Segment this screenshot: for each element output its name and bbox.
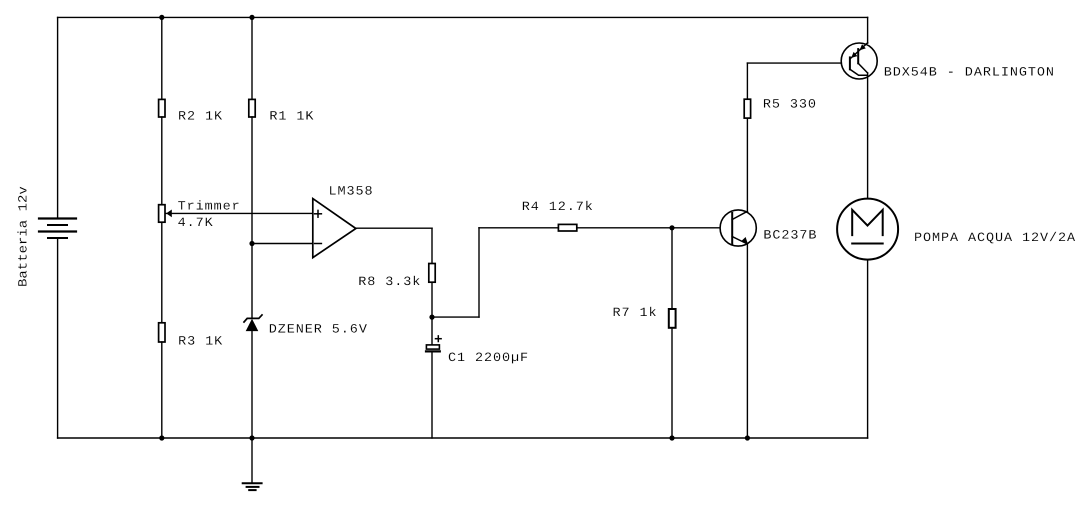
svg-text:BDX54B - DARLINGTON: BDX54B - DARLINGTON [884,66,1055,80]
svg-text:C1 2200µF: C1 2200µF [448,352,529,366]
node R8/C1/feedback junction [429,315,434,320]
resistor R3 [159,222,165,438]
capacitor C1 2200uF [426,317,441,438]
wire motor to bottom rail [867,260,869,438]
svg-text:R5 330: R5 330 [763,98,817,112]
ground [243,438,262,490]
svg-text:R3 1K: R3 1K [178,335,223,349]
wire top rail [58,16,868,18]
wire feedback vertical [478,228,480,317]
zener diode D1 DZENER 5.6V [244,315,262,438]
resistor R8 [429,228,435,317]
wire to R4 [479,227,558,229]
svg-text:BC237B: BC237B [763,229,817,243]
resistor R4 [558,224,576,231]
resistor R2 [159,17,165,204]
node R3/bottom-rail junction [159,435,164,440]
svg-text:POMPA ACQUA 12V/2A: POMPA ACQUA 12V/2A [914,231,1076,245]
svg-text:Trimmer: Trimmer [178,200,241,214]
svg-text:R1 1K: R1 1K [269,110,314,124]
node top-rail/R1 junction [249,15,254,20]
svg-text:DZENER 5.6V: DZENER 5.6V [269,323,368,337]
node zener/bottom-rail junction [249,435,254,440]
wire BC237B emitter to bottom rail [746,244,748,438]
node top-rail/R2 junction [159,15,164,20]
wire R4 to BC237B base [577,227,727,229]
node R7/bottom-rail junction [669,435,674,440]
wire op-amp - input [252,243,313,245]
wire feedback from R8/C1 node [432,316,479,318]
wire BDX54B collector to motor [867,73,869,199]
wire R5 to BDX54B base [747,62,850,64]
motor M1 POMPA ACQUA [837,199,898,260]
svg-text:R2 1K: R2 1K [178,110,223,124]
wire bottom rail [58,437,868,439]
node BC237B-emitter/bottom-rail junction [745,435,750,440]
resistor R1 [249,17,255,318]
op-amp U1 LM358 [313,199,356,258]
wire op-amp output [356,227,432,229]
svg-text:R8 3.3k: R8 3.3k [358,276,421,290]
svg-text:Batteria 12v: Batteria 12v [17,186,31,287]
transistor Q1 BC237B [720,210,756,246]
resistor R5 [744,63,750,118]
wire BC237B collector to R5 [746,118,748,211]
node R4/R7 junction [669,225,674,230]
svg-text:R7 1k: R7 1k [613,306,658,320]
svg-text:4.7K: 4.7K [178,216,214,230]
resistor R7 [669,228,676,438]
transistor U2 BDX54B darlington [841,43,877,79]
svg-text:R4 12.7k: R4 12.7k [522,201,594,215]
svg-text:LM358: LM358 [329,185,374,199]
node R1/op-amp-minus junction [249,241,254,246]
battery B1 Batteria 12v [39,17,76,438]
wire trimmer wiper to op-amp + input [166,212,313,214]
trimmer P1 4.7K [159,205,172,223]
wire top rail to BDX54B emitter [867,17,869,43]
